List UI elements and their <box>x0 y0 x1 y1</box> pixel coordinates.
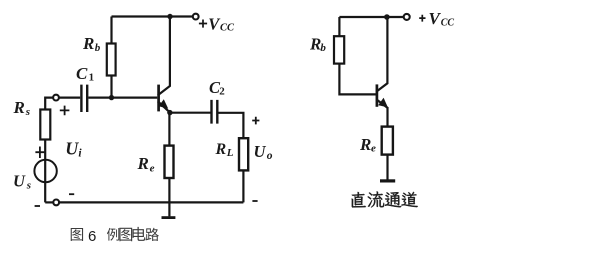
resistor Re (left) <box>165 146 174 178</box>
wire: top VCC rail (right circuit) <box>339 16 403 18</box>
capacitor C2 <box>212 100 218 124</box>
transistor Q2: emitter with arrow <box>376 98 388 108</box>
svg-text:CC: CC <box>441 18 455 29</box>
transistor Q1: emitter with arrow <box>158 99 170 112</box>
wire: top VCC rail (left circuit) <box>112 15 193 17</box>
terminal: +VCC open circle (left) <box>193 14 199 20</box>
wire: bottom ground rail <box>59 201 243 203</box>
label Re (right) <box>359 135 376 155</box>
svg-text:s: s <box>26 179 31 191</box>
svg-text:V: V <box>429 9 442 28</box>
svg-text:2: 2 <box>219 86 225 98</box>
terminal: +VCC open circle (right) <box>404 14 410 20</box>
wire: Rb bottom to base (right) <box>339 64 376 95</box>
svg-text:C: C <box>76 64 88 83</box>
resistor Rb (right) <box>334 36 344 63</box>
label + (Uo) <box>252 117 259 125</box>
transistor Q1: base bar <box>157 85 160 112</box>
wire: RL to bottom rail <box>242 170 244 202</box>
label - (below Us) <box>35 205 40 207</box>
wire: input corner to terminal <box>45 98 53 110</box>
resistor Rs <box>40 110 50 140</box>
label C1 <box>76 64 94 83</box>
wire: terminal to C1 <box>59 96 80 98</box>
svg-text:b: b <box>320 42 326 54</box>
wire: Re to ground stub <box>168 178 170 216</box>
wire: rail to Rb top (right) <box>338 17 340 36</box>
svg-text:e: e <box>150 163 155 175</box>
label C2 <box>209 78 225 98</box>
svg-text:R: R <box>359 135 371 154</box>
resistor Rb (left) <box>107 44 116 76</box>
label Rs <box>13 98 31 118</box>
wire: emitter to C2 <box>170 112 211 114</box>
node: Rb/base junction dot <box>109 95 114 100</box>
node: emitter junction dot <box>167 110 172 115</box>
transistor Q2: collector <box>376 17 387 92</box>
label Rb (right) <box>309 35 326 54</box>
wire: C1 to base <box>88 96 157 98</box>
label Uo <box>254 142 273 162</box>
svg-text:U: U <box>254 142 267 161</box>
wire: rail to Rb top <box>110 17 112 44</box>
svg-text:R: R <box>82 34 94 53</box>
svg-text:R: R <box>137 154 149 173</box>
label - (right of bottom terminal) <box>69 193 74 195</box>
caption: 图 6 例图电路 <box>71 227 159 245</box>
svg-text:1: 1 <box>89 71 95 83</box>
node: VCC junction dot (right) <box>384 14 390 20</box>
capacitor C1 <box>81 85 87 112</box>
svg-text:R: R <box>215 141 227 158</box>
resistor Re (right) <box>382 127 393 155</box>
source Us circle <box>34 160 56 182</box>
wire: Rs to bottom corner (through source) <box>44 140 46 203</box>
svg-text:U: U <box>65 138 79 158</box>
svg-text:b: b <box>95 42 101 54</box>
label - (Uo) <box>252 200 257 202</box>
label RL <box>215 141 234 159</box>
svg-text:6: 6 <box>88 228 96 245</box>
label Re (left) <box>137 154 155 175</box>
wire: emitter down to Re <box>168 113 170 146</box>
svg-text:s: s <box>25 106 30 118</box>
caption: 直流通道 <box>352 191 418 207</box>
transistor Q2: base bar <box>376 84 379 106</box>
label Rb (left) <box>82 34 101 54</box>
label +VCC (right) <box>419 9 454 29</box>
svg-text:L: L <box>226 147 234 159</box>
label + (input) <box>60 106 70 116</box>
label Ui <box>65 138 82 159</box>
node: VCC junction dot (left) <box>167 14 172 19</box>
svg-text:R: R <box>13 98 25 117</box>
svg-text:CC: CC <box>220 23 235 34</box>
transistor Q1: collector <box>158 17 170 96</box>
resistor RL <box>239 138 248 170</box>
label Us <box>13 171 31 191</box>
terminal: input open circle <box>53 95 59 101</box>
terminal: bottom open circle <box>53 200 59 206</box>
label + (above Us) <box>35 147 44 159</box>
ground (left circuit) <box>162 216 176 219</box>
ground (right circuit) <box>380 179 395 182</box>
wire: Rb bottom to base node <box>110 76 112 98</box>
wire: C2 to RL branch corner <box>219 113 244 138</box>
svg-text:U: U <box>13 171 26 190</box>
wire: emitter to Re (right) <box>386 107 388 127</box>
wire: Re to ground (right) <box>386 155 388 180</box>
label +VCC (left) <box>199 14 235 33</box>
wire: bottom corner to terminal <box>45 201 53 203</box>
svg-text:e: e <box>371 143 376 155</box>
svg-text:o: o <box>267 150 273 162</box>
